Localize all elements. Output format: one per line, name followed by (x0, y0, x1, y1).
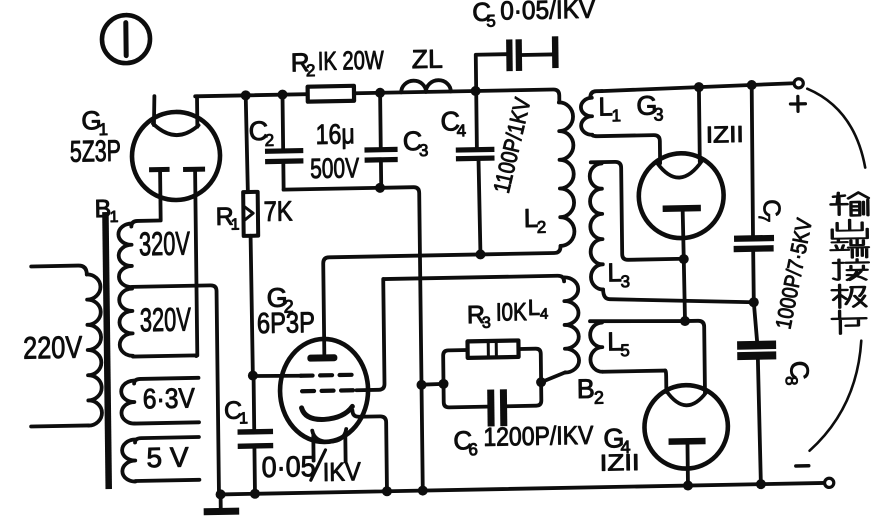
svg-text:2: 2 (594, 388, 604, 408)
chinese character 极 (832, 284, 866, 308)
svg-text:I0K: I0K (496, 298, 528, 327)
node: junction C3/ZL on B+ bus (375, 88, 385, 98)
tube G2 filament (312, 429, 346, 462)
svg-text:3: 3 (482, 315, 491, 332)
tube G4 1Z11 envelope (644, 384, 728, 469)
svg-text:320V: 320V (140, 300, 191, 338)
wire: HV centre tap (132, 285, 219, 496)
wire: C2/C3 ground return rail (284, 187, 423, 493)
winding L2 (B2 primary upper) (479, 102, 575, 254)
label C5 0.05/1KV (472, 0, 596, 31)
svg-text:320V: 320V (139, 224, 190, 262)
node: R3/C6 right node (L4 bottom) (536, 377, 546, 387)
ground symbol (203, 494, 239, 515)
node: junction G4 plate on bottom bus (683, 480, 693, 490)
label C1 (224, 396, 248, 427)
capacitor C7 (732, 85, 775, 303)
winding L5 (590, 319, 686, 372)
svg-text:5: 5 (486, 12, 496, 31)
wire: G2 cathode to ground bus (352, 410, 387, 492)
resistor R3 body (468, 340, 519, 357)
svg-text:0·05/IKV: 0·05/IKV (500, 0, 596, 25)
svg-text:1: 1 (231, 216, 240, 233)
svg-text:4: 4 (540, 306, 549, 323)
tube G1 right plate (183, 167, 207, 356)
R3/C6 parallel loop (443, 349, 541, 408)
figure number 1 in circle (102, 15, 151, 64)
capacitor C8 (737, 302, 778, 485)
wire: ground rail to R3/C6 left node (422, 382, 444, 387)
label L2 (524, 203, 547, 237)
svg-text:6P3P: 6P3P (257, 307, 315, 340)
svg-text:3: 3 (653, 104, 663, 124)
label R2 1K 20W (291, 45, 385, 81)
svg-text:L: L (528, 295, 541, 320)
tube G2 control grid (dashed) (301, 375, 355, 376)
svg-text:IK 20W: IK 20W (318, 45, 385, 76)
label 320V lower (140, 300, 191, 338)
svg-text:500V: 500V (310, 152, 360, 184)
svg-text:B: B (577, 374, 595, 404)
wire: output + bus from L1 to terminal (601, 83, 794, 91)
wire: R1 bottom to grid node (251, 236, 253, 376)
tube G2 anode bar (307, 354, 337, 362)
label 320V upper (139, 224, 190, 262)
chinese character 端 (831, 239, 869, 258)
svg-text:16μ: 16μ (316, 118, 355, 150)
label C6 1200P/1KV (453, 420, 594, 460)
tube G4 filament arc (666, 390, 706, 406)
svg-text:7: 7 (755, 213, 772, 222)
tube G1 5Z3P envelope (131, 111, 220, 201)
winding L4 (feedback) (384, 275, 580, 385)
label C7 (rotated) (755, 199, 785, 223)
label B2 (577, 374, 604, 409)
capacitor C6 plates (487, 389, 507, 426)
node: G3 plate / L3 top (679, 254, 689, 264)
tube G2 grid lead to grid node (253, 375, 302, 377)
node: junction C3 bottom (375, 183, 385, 193)
tube G1 filament arc (153, 123, 199, 136)
label R1 (215, 202, 239, 233)
tube G1 filament left stub (154, 96, 155, 125)
resistor R1 body with wiper arrow (243, 192, 258, 236)
svg-text:1: 1 (611, 106, 621, 125)
wire: G2 screen grid to L4 top (355, 279, 384, 390)
wire: G3 plate node down to L5 node (684, 259, 685, 321)
label G4 (603, 423, 630, 458)
capacitor C2 (264, 94, 303, 190)
label G2 (266, 282, 293, 317)
node: junction centre-tap on bottom bus (216, 489, 226, 499)
svg-text:5: 5 (620, 341, 630, 360)
choke ZL (401, 80, 451, 92)
tube G3 filament arc (657, 161, 702, 178)
node: junction ground rail on bottom bus (418, 485, 428, 495)
pointer arc from - terminal to label (808, 341, 862, 451)
tube G3 filament right lead to + bus (697, 87, 702, 162)
svg-text:IZII: IZII (600, 449, 640, 476)
label L5 (607, 326, 630, 360)
svg-text:IKV: IKV (323, 456, 362, 487)
chinese character 片 (832, 310, 866, 334)
svg-text:3: 3 (620, 272, 630, 291)
svg-text:4: 4 (457, 121, 467, 140)
label 5V (146, 442, 189, 474)
node: R3/C6 left node (438, 379, 448, 389)
svg-text:8: 8 (782, 376, 801, 386)
label L3 (607, 257, 630, 291)
svg-text:ZL: ZL (412, 44, 443, 75)
pointer arc from + terminal to label (807, 88, 865, 169)
node: junction G2 cathode on bottom bus (382, 486, 392, 496)
label 7K (263, 195, 293, 227)
node: junction C7 on + bus (747, 80, 757, 90)
wire: bottom common bus (221, 483, 825, 494)
svg-text:3: 3 (419, 141, 429, 160)
node: junction C1 bottom on bottom bus (250, 489, 260, 499)
transformer B1 core (102, 212, 112, 489)
capacitor C5 with series terminal bar (476, 36, 559, 91)
chinese character 接 (833, 259, 868, 280)
wire: top B+ bus from G1 filament to L2 corner (195, 89, 559, 109)
label L1 (598, 91, 621, 125)
svg-text:5Z3P: 5Z3P (70, 135, 121, 169)
terminal: - output (796, 465, 834, 488)
terminal: + output (790, 79, 805, 112)
svg-text:0·05: 0·05 (261, 451, 315, 484)
wire: L5 node to G4 filament right (685, 321, 705, 393)
svg-text:1: 1 (239, 410, 248, 427)
label 0.05/1KV (261, 449, 361, 488)
svg-text:220V: 220V (23, 330, 83, 366)
winding L3 (590, 159, 754, 305)
svg-text:6·3V: 6·3V (143, 382, 196, 414)
svg-text:5 V: 5 V (146, 442, 189, 474)
svg-text:7K: 7K (263, 195, 293, 227)
label C8 (rotated) (782, 361, 815, 386)
node: L5 top / G4 filament node (680, 316, 690, 326)
winding secondary 320V lower (119, 287, 196, 357)
chinese character 出 (832, 219, 867, 238)
node: junction on ground line at R3/C6 (416, 380, 426, 390)
svg-text:6: 6 (468, 440, 478, 459)
label 16u 500V (310, 118, 360, 184)
tube G2 6P3P envelope (279, 338, 368, 443)
label 220V (23, 330, 83, 366)
label B1 (94, 195, 118, 226)
capacitor C4 (455, 91, 496, 255)
winding secondary 5V (122, 437, 199, 482)
resistor R2 body (308, 86, 354, 102)
svg-text:2: 2 (265, 131, 275, 150)
node: junction G3 filament on + bus (694, 82, 704, 92)
node: junction R1 top on B+ bus (241, 90, 251, 100)
node: grid node (R1/C1/G2 grid) (248, 370, 258, 380)
winding secondary 320V upper (118, 221, 160, 288)
svg-text:1200P/IKV: 1200P/IKV (483, 420, 594, 452)
capacitor C3 (364, 92, 398, 188)
wire: B+ bus to R1 top (246, 95, 248, 192)
node: junction C8 on bottom bus (756, 479, 766, 489)
tube G2 cathode arc (302, 406, 353, 419)
tube G3 1Z11 envelope (638, 152, 724, 238)
label R3 10K L4 (467, 295, 549, 333)
tube G3 plate (663, 205, 702, 260)
winding secondary 6.3V (121, 378, 199, 424)
node: C7/C8 junction with L3 bottom (749, 297, 759, 307)
label C4 (440, 106, 466, 140)
svg-text:2: 2 (537, 218, 547, 237)
node: junction C2 top on B+ bus (277, 90, 287, 100)
label 5Z3P (70, 135, 121, 169)
label ZL (412, 44, 443, 75)
wire: G2 anode to tank node (323, 254, 481, 353)
label G3 (636, 90, 663, 125)
node: junction C4/C5 tank top on B+ bus (471, 86, 481, 96)
label 6P3P (257, 307, 315, 340)
tube G4 plate (669, 438, 707, 486)
chinese character 输 (831, 192, 869, 216)
svg-text:2: 2 (306, 61, 316, 80)
tube G1 filament right lead to B+ bus (195, 96, 199, 127)
svg-text:1: 1 (110, 209, 119, 226)
winding primary 220V (29, 265, 102, 427)
svg-text:IZII: IZII (706, 121, 744, 148)
label G1 (81, 105, 108, 139)
tube G2 screen grid (dashed) (302, 390, 356, 391)
label C2 (248, 116, 274, 150)
winding L1 (581, 90, 660, 165)
capacitor C1 (237, 375, 274, 494)
tube G1 left plate (149, 167, 170, 221)
label (chinese): output terminals connect to transducer plates (830, 192, 870, 334)
wire: L5 bottom corner to G4 filament left (665, 371, 666, 392)
node: tank node (L2 bottom / C4 / G2 anode) (475, 249, 485, 259)
label 6.3V (143, 382, 196, 414)
label C3 (403, 126, 429, 160)
